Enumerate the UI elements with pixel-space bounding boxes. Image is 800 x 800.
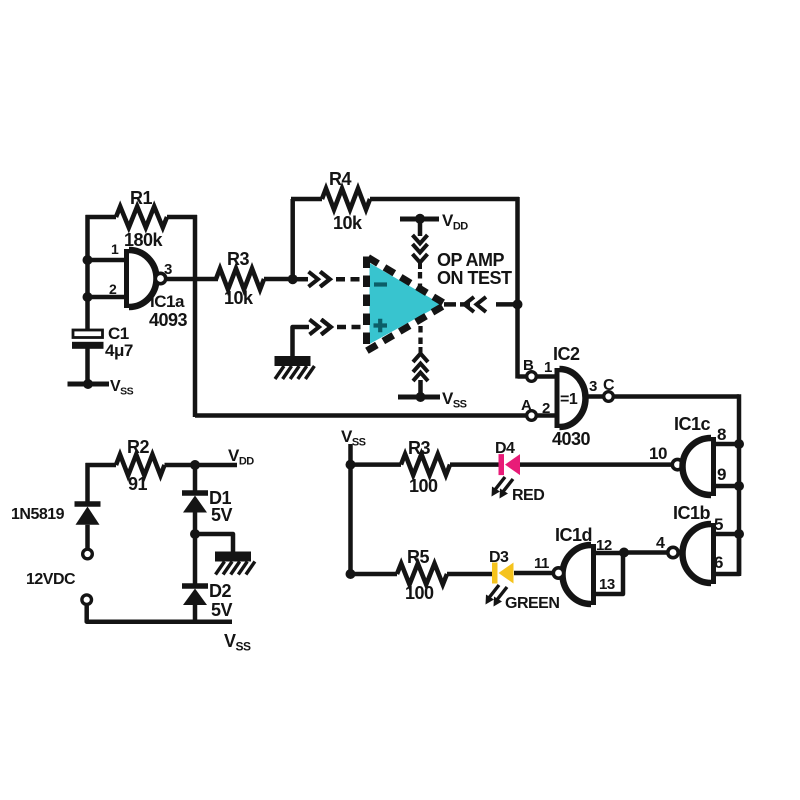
wire Vdd (195, 463, 237, 468)
svg-text:IC1c: IC1c (674, 414, 711, 434)
wire right rail (737, 394, 742, 576)
svg-text:R2: R2 (127, 437, 149, 457)
terminal C (604, 392, 614, 402)
svg-text:B: B (523, 357, 534, 374)
svg-text:5: 5 (714, 515, 723, 534)
wire 1N5819 top (85, 463, 90, 504)
svg-text:4030: 4030 (552, 429, 591, 449)
node pin4 junction (619, 548, 629, 558)
svg-text:1N5819: 1N5819 (11, 506, 65, 523)
node pin1 junction (83, 255, 93, 265)
wire pin6 (711, 534, 739, 574)
svg-text:4093: 4093 (149, 310, 188, 330)
zener D1 (182, 490, 208, 496)
node pin8 (734, 439, 744, 449)
wire Vss mid rail (348, 444, 353, 574)
svg-text:D3: D3 (489, 549, 509, 566)
wire pin10 (519, 462, 673, 467)
wire C to right rail (613, 394, 739, 399)
bubble IC1d output (553, 568, 563, 578)
power Vss C1 (68, 382, 110, 387)
svg-text:12: 12 (596, 537, 612, 554)
wire pin9 (711, 484, 739, 489)
wire pin4 (624, 550, 668, 555)
svg-text:10k: 10k (333, 213, 363, 233)
svg-text:RED: RED (512, 487, 544, 504)
resistor R2 (86, 463, 117, 468)
svg-text:2: 2 (109, 281, 117, 297)
wire pin8 (711, 442, 739, 447)
svg-text:IC2: IC2 (553, 344, 580, 364)
wire op-amp output probe (444, 302, 456, 307)
svg-text:13: 13 (599, 576, 615, 593)
svg-text:D2: D2 (209, 581, 231, 601)
svg-text:5V: 5V (211, 505, 233, 525)
wire inverting input probe (293, 277, 308, 282)
svg-text:11: 11 (534, 555, 549, 572)
wire non-inverting input probe (293, 327, 310, 356)
svg-text:8: 8 (717, 425, 726, 444)
svg-text:R3: R3 (408, 438, 430, 458)
wire pin5 (711, 532, 739, 537)
wire 12VDC return (87, 604, 232, 621)
nand-gate IC1a (124, 249, 134, 308)
svg-text:ON TEST: ON TEST (437, 268, 512, 288)
nand-gate IC1b (706, 523, 716, 584)
svg-text:R4: R4 (329, 169, 351, 189)
svg-text:12VDC: 12VDC (26, 571, 76, 588)
wire B to gate (536, 374, 558, 379)
svg-text:1: 1 (544, 359, 552, 376)
wire IC2 output (586, 394, 605, 399)
wire A rail (195, 413, 527, 418)
svg-text:IC1b: IC1b (673, 503, 711, 523)
bubble IC1c output (672, 459, 682, 469)
wire output rail (515, 197, 520, 379)
svg-text:91: 91 (128, 474, 148, 494)
svg-text:R1: R1 (130, 188, 152, 208)
svg-text:=1: =1 (560, 391, 578, 408)
svg-text:OP AMP: OP AMP (437, 250, 505, 270)
resistor R4 (290, 199, 295, 279)
svg-text:3: 3 (589, 378, 597, 395)
svg-text:3: 3 (164, 261, 172, 278)
terminal 12VDC plus (83, 549, 93, 559)
wire IC1a pin1 (88, 258, 129, 263)
wire D1 top (193, 465, 198, 493)
svg-text:10: 10 (649, 444, 667, 463)
nand-gate IC1c (706, 437, 716, 496)
led D4 red (499, 454, 505, 475)
wire pin13 bracket (594, 553, 623, 594)
op-amp U1 under test (370, 263, 442, 344)
svg-text:IC1a: IC1a (150, 292, 185, 311)
svg-text:100: 100 (405, 583, 434, 603)
terminal B (527, 372, 537, 382)
led D3 green (492, 563, 498, 584)
svg-text:100: 100 (409, 476, 438, 496)
bubble IC1b output (668, 547, 678, 557)
svg-text:GREEN: GREEN (505, 595, 559, 612)
emission arrows D4 (494, 477, 505, 491)
node R5 junction (346, 569, 356, 579)
resistor R3 100 (349, 462, 401, 467)
svg-text:4μ7: 4μ7 (105, 341, 133, 360)
bubble IC1a output (155, 273, 165, 283)
terminal 12VDC minus (82, 595, 92, 605)
resistor R5 100 (349, 572, 397, 577)
wire left rail (85, 215, 90, 330)
node inverting input (288, 274, 298, 284)
node R3 junction (346, 460, 356, 470)
svg-text:A: A (521, 397, 532, 414)
nand-gate IC1d (586, 544, 596, 605)
resistor R3 10k (216, 269, 264, 290)
svg-text:IC1d: IC1d (555, 525, 592, 545)
svg-text:10k: 10k (224, 288, 254, 308)
wire A to gate (536, 413, 558, 418)
node pin5 (734, 529, 744, 539)
power Vss probe (398, 395, 440, 400)
node op-amp output (513, 299, 523, 309)
svg-text:9: 9 (717, 465, 726, 484)
wire IC1a output (166, 277, 218, 282)
svg-text:C: C (603, 377, 615, 394)
node pin9 (734, 481, 744, 491)
ground non-inverting (275, 356, 311, 366)
terminal A (527, 411, 537, 421)
wire IC1a pin2 (88, 295, 129, 300)
wire pin12 (594, 551, 624, 556)
wire ground branch (195, 534, 233, 552)
ground supply (215, 552, 251, 562)
svg-text:6: 6 (714, 553, 723, 572)
power Vdd probe (400, 217, 439, 222)
wire feedback (193, 215, 198, 417)
svg-text:R3: R3 (227, 249, 249, 269)
resistor R1 (86, 215, 117, 220)
capacitor C1 (73, 330, 103, 338)
svg-text:5V: 5V (211, 600, 233, 620)
svg-text:R5: R5 (407, 547, 429, 567)
node D1 D2 (190, 529, 200, 539)
node Vdd (190, 460, 200, 470)
emission arrows D3 (488, 585, 499, 599)
diode 1N5819 (75, 501, 101, 507)
svg-text:D4: D4 (495, 440, 515, 457)
svg-text:4: 4 (656, 535, 665, 552)
node pin2 junction (83, 292, 93, 302)
svg-text:1: 1 (111, 241, 119, 257)
wire pin11 (514, 571, 554, 576)
wire B input (518, 374, 528, 379)
zener D2 (193, 534, 198, 586)
xor-gate IC2 (555, 368, 565, 428)
